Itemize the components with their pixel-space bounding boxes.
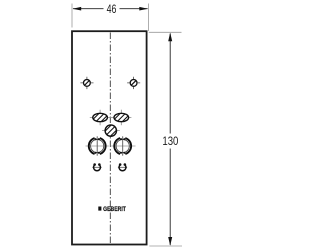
dimension 46: left extension line [71, 4, 73, 28]
left pipe ellipse crosshair [90, 117, 111, 119]
frame rectangle (element body) [72, 31, 147, 244]
center pipe circle crosshair [102, 130, 120, 132]
dimension 46: right arrowhead [139, 7, 148, 11]
svg-text:GEBERIT: GEBERIT [103, 206, 126, 213]
right snap ring arcs [114, 138, 120, 154]
right snap ring crosshair [111, 145, 135, 147]
right pipe ellipse crosshair [111, 117, 131, 119]
left pipe ellipse [93, 113, 108, 121]
dimension 130: top arrowhead [168, 33, 172, 42]
center pipe circle [105, 125, 116, 136]
dimension 130: bottom arrowhead [168, 237, 172, 246]
dimension 46: left arrowhead [73, 7, 82, 11]
dimension 46: dimension line [73, 8, 104, 10]
right mounting hole [130, 80, 137, 87]
dimension 130: top extension line [149, 31, 182, 33]
vertical centerline [109, 33, 111, 244]
left mounting hole [84, 80, 91, 87]
left pipe clip [92, 166, 101, 168]
dimension 130: dimension line [169, 34, 171, 134]
left mounting hole crosshair [80, 82, 93, 84]
svg-text:46: 46 [107, 2, 117, 16]
left snap ring arcs [89, 138, 95, 154]
right mounting hole crosshair [127, 82, 140, 84]
right pipe clip [118, 166, 127, 168]
svg-text:130: 130 [162, 134, 178, 148]
dimension 130: bottom extension line [149, 245, 182, 247]
right snap ring inner circle [116, 139, 129, 152]
right pipe ellipse [114, 113, 129, 121]
dimension 46: right extension line [147, 4, 149, 32]
left snap ring crosshair [86, 145, 109, 147]
GEBERIT logo square [98, 207, 101, 211]
left snap ring inner circle [91, 139, 104, 152]
